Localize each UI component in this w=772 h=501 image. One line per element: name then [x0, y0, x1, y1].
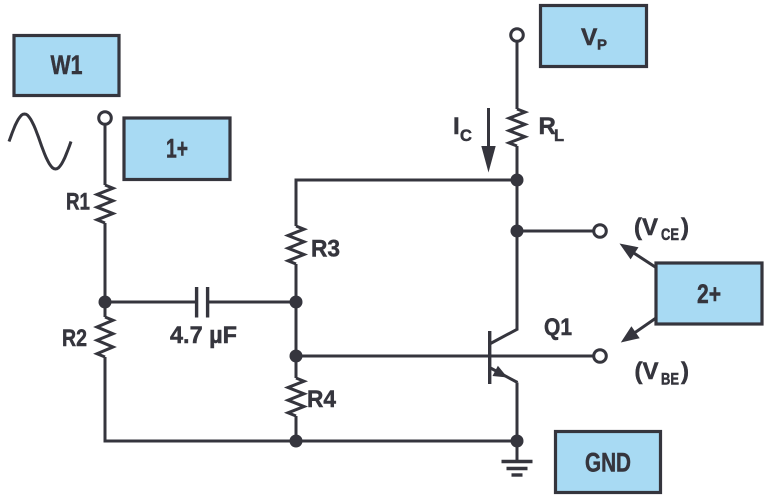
svg-text:2+: 2+ [697, 279, 721, 309]
VBE node label [635, 358, 690, 389]
terminal VP (open circle) [511, 29, 524, 42]
svg-text:R1: R1 [66, 189, 90, 216]
svg-text:L: L [554, 127, 564, 145]
wire: R4 to bottom rail [295, 416, 298, 441]
terminal VBE (open circle) [594, 350, 607, 363]
wire: node B to node C [295, 302, 298, 356]
wire: node A to R2 [104, 302, 107, 317]
wire: R2 to bottom rail [104, 357, 107, 441]
wire: R1 to node A [104, 223, 107, 302]
svg-text:GND: GND [585, 448, 631, 478]
wire: RL to node D [516, 146, 519, 180]
svg-text:R3: R3 [311, 236, 340, 263]
resistor RL [509, 109, 525, 146]
wire: node C to R4 [295, 356, 298, 378]
svg-text:(V: (V [634, 214, 658, 241]
svg-text:I: I [453, 113, 460, 140]
label 2+ [656, 263, 762, 324]
node F (junction dot on bottom rail) [290, 435, 303, 448]
svg-text:(V: (V [635, 358, 659, 385]
arrow: 2+ to VBE [621, 318, 656, 343]
svg-text:BE: BE [661, 371, 679, 389]
svg-text:W1: W1 [51, 50, 83, 80]
wire: top rail to R3 [295, 179, 298, 227]
wire: base rail from node C to terminal VBE [296, 355, 594, 358]
svg-text:V: V [581, 24, 598, 51]
transistor Q1 [490, 329, 518, 384]
IC current arrow [481, 108, 495, 173]
wire: capacitor to node B [209, 301, 296, 304]
ground [502, 441, 533, 475]
VCE node label [634, 214, 689, 244]
node G (junction dot at emitter/ground) [511, 435, 524, 448]
svg-text:C: C [460, 127, 472, 145]
arrow: 2+ to VCE [620, 244, 657, 268]
label W1 [14, 36, 119, 96]
resistor R3 [288, 226, 304, 264]
wire: node E to terminal VCE [517, 230, 594, 233]
terminal 1+ (open circle) [99, 112, 112, 125]
svg-text:): ) [681, 214, 689, 241]
label GND [556, 432, 661, 493]
wire: node A to capacitor [105, 301, 195, 304]
svg-text:CE: CE [661, 226, 679, 244]
node A (junction dot) [99, 296, 112, 309]
wire: terminal VP to RL [516, 41, 519, 109]
wire: terminal to R1 [104, 124, 107, 185]
label 1+ [124, 118, 230, 180]
capacitor C1 (4.7 uF) [197, 287, 208, 318]
wire: top rail (node B column to collector column) [295, 179, 518, 182]
svg-text:4.7 µF: 4.7 µF [170, 322, 237, 349]
wire: R3 to node B [295, 264, 298, 302]
wire: bottom ground rail [104, 440, 518, 443]
resistor R1 [97, 185, 113, 223]
wire: node D to node E [516, 180, 519, 231]
wire: Q1 emitter to bottom rail [516, 383, 519, 442]
resistor R4 [288, 378, 304, 416]
svg-text:R4: R4 [307, 386, 337, 413]
IC current label [453, 113, 472, 145]
svg-text:Q1: Q1 [544, 314, 572, 341]
svg-text:P: P [597, 37, 607, 54]
svg-text:1+: 1+ [166, 134, 188, 164]
node B (junction dot) [290, 296, 303, 309]
sine source symbol [9, 114, 71, 169]
node D (junction dot) [511, 174, 524, 187]
terminal VCE (open circle) [594, 225, 607, 238]
node C (junction dot) [290, 350, 303, 363]
svg-text:): ) [681, 358, 689, 385]
node E (junction dot) [511, 225, 524, 238]
RL label [539, 113, 565, 145]
label VP [541, 6, 647, 67]
svg-text:R2: R2 [62, 325, 87, 352]
resistor R2 [97, 317, 113, 357]
wire: node E down to Q1 collector [516, 231, 519, 330]
